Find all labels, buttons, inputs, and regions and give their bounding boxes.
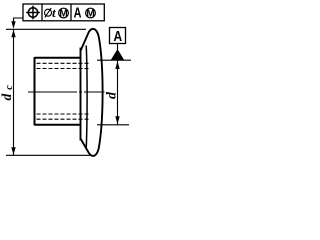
hidden thread line bottom minor <box>37 113 91 115</box>
bottom extension line of d <box>97 124 129 126</box>
datum feature symbol A (box) <box>110 28 126 51</box>
dc top arrow <box>11 30 15 38</box>
nut body outline <box>35 57 81 125</box>
bottom extension line of dc <box>6 154 90 156</box>
feature control frame <box>23 4 104 21</box>
svg-text:t: t <box>52 5 56 20</box>
svg-text:A: A <box>74 4 82 21</box>
hidden thread line bottom major <box>37 118 91 120</box>
svg-text:M: M <box>86 8 94 19</box>
dc bottom arrow <box>11 147 15 155</box>
centerline <box>28 91 105 93</box>
hidden thread line top minor <box>37 68 91 70</box>
hidden thread line top major <box>37 62 91 64</box>
MMC modifier on datum <box>86 8 96 19</box>
datum triangle <box>111 49 124 60</box>
top extension line of dc <box>6 28 86 30</box>
flange outline <box>81 29 103 156</box>
diameter symbol <box>45 8 52 18</box>
svg-text:dc: dc <box>0 85 15 101</box>
d top arrow <box>115 61 119 69</box>
svg-text:M: M <box>59 8 67 19</box>
MMC modifier on tolerance <box>59 8 69 19</box>
position symbol <box>26 6 40 20</box>
svg-text:d: d <box>105 91 120 99</box>
leader from frame to dc dimension <box>11 18 23 29</box>
top extension line of d (datum line) <box>97 59 131 61</box>
flange crease line <box>85 46 88 150</box>
d dimension line <box>117 60 119 125</box>
svg-text:A: A <box>113 28 122 45</box>
dc dimension line <box>13 29 15 155</box>
d bottom arrow <box>115 116 119 124</box>
